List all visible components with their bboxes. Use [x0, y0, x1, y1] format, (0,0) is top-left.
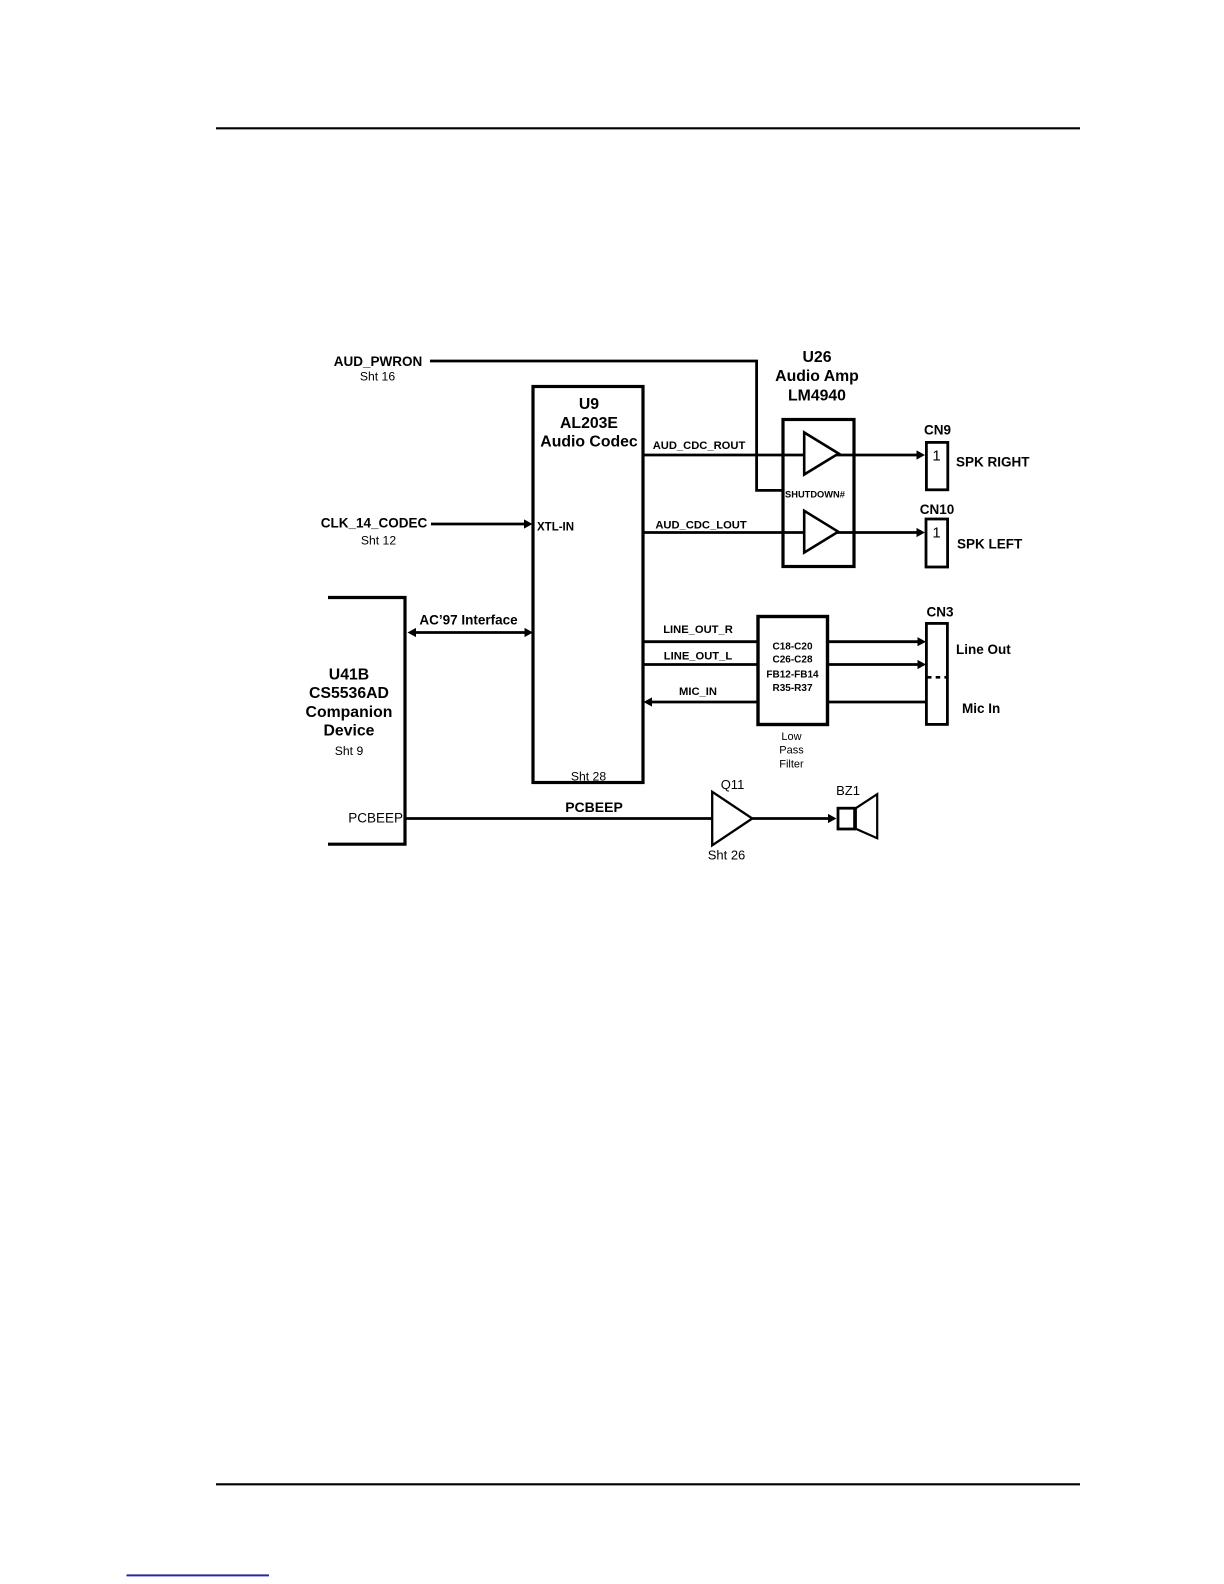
svg-text:CN3: CN3 — [926, 605, 953, 620]
svg-text:U26: U26 — [803, 349, 832, 366]
svg-text:Audio Amp: Audio Amp — [775, 368, 859, 385]
svg-text:Sht 26: Sht 26 — [708, 848, 746, 863]
svg-text:AUD_PWRON: AUD_PWRON — [334, 354, 423, 369]
svg-text:BZ1: BZ1 — [836, 783, 860, 798]
svg-text:CN10: CN10 — [920, 502, 955, 517]
svg-text:SPK LEFT: SPK LEFT — [957, 537, 1023, 552]
svg-text:Sht 28: Sht 28 — [571, 770, 606, 784]
svg-text:CN9: CN9 — [924, 423, 951, 438]
svg-text:FB12-FB14: FB12-FB14 — [766, 670, 819, 681]
svg-text:Line Out: Line Out — [956, 642, 1011, 657]
svg-text:SPK RIGHT: SPK RIGHT — [956, 455, 1030, 470]
svg-text:AUD_CDC_ROUT: AUD_CDC_ROUT — [653, 440, 746, 452]
svg-text:U9: U9 — [579, 396, 599, 413]
svg-text:PCBEEP: PCBEEP — [348, 811, 403, 826]
svg-text:1: 1 — [932, 448, 940, 465]
svg-text:Audio Codec: Audio Codec — [540, 434, 638, 451]
svg-text:1: 1 — [932, 525, 940, 542]
svg-text:C26-C28: C26-C28 — [772, 655, 812, 666]
svg-text:U41B: U41B — [329, 667, 369, 684]
svg-text:Sht 16: Sht 16 — [360, 370, 395, 384]
svg-text:C18-C20: C18-C20 — [772, 642, 812, 653]
svg-text:Device: Device — [324, 723, 375, 740]
svg-text:Q11: Q11 — [721, 777, 745, 792]
svg-text:SHUTDOWN#: SHUTDOWN# — [785, 490, 846, 500]
svg-text:Pass: Pass — [779, 745, 804, 757]
svg-text:Sht 12: Sht 12 — [361, 534, 396, 548]
svg-text:XTL-IN: XTL-IN — [537, 522, 574, 534]
svg-text:R35-R37: R35-R37 — [772, 683, 812, 694]
svg-text:MIC_IN: MIC_IN — [679, 686, 717, 698]
svg-text:Filter: Filter — [779, 758, 804, 770]
svg-text:LINE_OUT_R: LINE_OUT_R — [663, 624, 733, 636]
svg-text:CS5536AD: CS5536AD — [309, 685, 389, 702]
svg-text:CLK_14_CODEC: CLK_14_CODEC — [321, 516, 428, 531]
svg-text:PCBEEP: PCBEEP — [565, 799, 623, 815]
svg-text:AL203E: AL203E — [560, 415, 618, 432]
svg-text:LM4940: LM4940 — [788, 387, 846, 404]
svg-text:Sht 9: Sht 9 — [335, 744, 364, 758]
svg-text:LINE_OUT_L: LINE_OUT_L — [664, 651, 733, 663]
svg-text:Low: Low — [781, 731, 801, 743]
svg-text:Mic In: Mic In — [962, 701, 1000, 716]
svg-text:AUD_CDC_LOUT: AUD_CDC_LOUT — [655, 520, 747, 532]
svg-text:Companion: Companion — [306, 704, 393, 721]
svg-text:AC’97 Interface: AC’97 Interface — [419, 613, 518, 628]
